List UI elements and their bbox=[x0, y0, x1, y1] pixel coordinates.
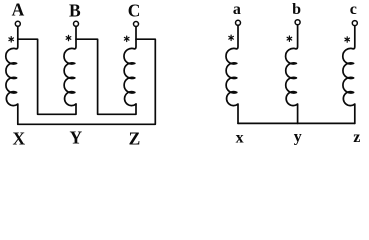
wire B-top to C-bottom (delta link) bbox=[76, 39, 136, 114]
svg-text:X: X bbox=[12, 128, 25, 148]
terminal B bbox=[74, 21, 79, 26]
polarity dot winding c bbox=[345, 37, 350, 42]
svg-text:z: z bbox=[353, 129, 360, 146]
polarity dot winding a bbox=[229, 35, 234, 40]
svg-text:B: B bbox=[69, 0, 81, 20]
svg-text:Y: Y bbox=[69, 128, 82, 148]
svg-text:a: a bbox=[233, 1, 241, 18]
bus xyz (secondary star bus) bbox=[238, 122, 355, 124]
polarity dot winding A bbox=[9, 37, 14, 42]
winding A (primary coil A) bbox=[6, 27, 18, 125]
winding B (primary coil B) bbox=[64, 27, 76, 106]
svg-text:x: x bbox=[236, 129, 244, 146]
polarity dot winding C bbox=[124, 36, 129, 41]
terminal a bbox=[236, 20, 241, 25]
terminal b bbox=[295, 20, 300, 25]
svg-text:C: C bbox=[128, 1, 141, 21]
svg-text:Z: Z bbox=[129, 129, 141, 148]
svg-text:c: c bbox=[350, 1, 357, 18]
polarity dot winding b bbox=[287, 36, 292, 41]
terminal c bbox=[352, 21, 357, 26]
winding C (primary coil C) bbox=[124, 27, 136, 106]
wire A-top to B-bottom (delta link) bbox=[18, 39, 76, 114]
winding c (secondary coil c) bbox=[343, 26, 355, 123]
terminal A bbox=[15, 21, 20, 26]
svg-text:b: b bbox=[292, 1, 301, 18]
winding b (secondary coil b) bbox=[286, 25, 298, 123]
svg-text:A: A bbox=[12, 0, 25, 20]
winding a (secondary coil a) bbox=[226, 26, 238, 124]
wire C-top to A-bottom (delta link via bottom bus) bbox=[18, 39, 156, 124]
svg-text:y: y bbox=[294, 129, 302, 146]
polarity dot winding B bbox=[66, 35, 71, 40]
terminal C bbox=[134, 22, 139, 27]
